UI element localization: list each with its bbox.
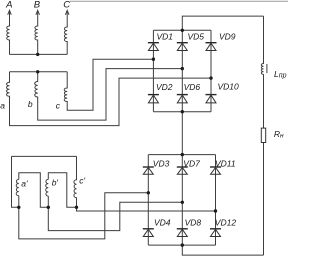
- svg-text:c′: c′: [79, 176, 85, 186]
- svg-text:VD9: VD9: [219, 31, 236, 41]
- svg-text:C: C: [63, 0, 70, 10]
- svg-text:b′: b′: [52, 178, 59, 188]
- svg-text:c: c: [56, 101, 61, 111]
- svg-text:VD7: VD7: [183, 158, 200, 168]
- svg-text:VD12: VD12: [215, 218, 237, 228]
- svg-text:a: a: [0, 100, 5, 110]
- svg-text:VD6: VD6: [184, 82, 201, 92]
- svg-text:VD4: VD4: [154, 218, 171, 228]
- svg-text:VD8: VD8: [185, 218, 202, 228]
- svg-text:A: A: [5, 0, 12, 10]
- svg-text:a′: a′: [21, 178, 28, 188]
- svg-text:B: B: [34, 0, 41, 10]
- svg-text:VD5: VD5: [188, 31, 205, 41]
- svg-text:VD11: VD11: [215, 158, 236, 168]
- svg-text:VD10: VD10: [218, 82, 240, 92]
- svg-text:VD3: VD3: [153, 158, 170, 168]
- svg-text:VD1: VD1: [157, 31, 174, 41]
- svg-text:VD2: VD2: [156, 82, 173, 92]
- svg-text:b: b: [28, 99, 33, 109]
